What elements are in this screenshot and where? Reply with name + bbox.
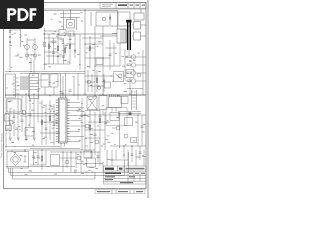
wire [136,64,146,66]
IC U6 pins [110,95,120,97]
wire [94,112,96,155]
wire [21,96,23,132]
wire [45,104,47,145]
relay K1 coil [69,22,73,26]
resistor R9 [89,125,91,130]
thermistor TH1 [109,14,111,26]
wire [10,29,21,31]
capacitor C8 [29,114,32,115]
wire mid bus [5,71,85,73]
wire [110,145,146,147]
wire [139,146,141,160]
IC U17 [105,82,111,88]
wire [30,164,46,166]
title block col line 4 [133,171,135,181]
wire [143,150,145,166]
wire [27,39,35,41]
wire [85,57,110,59]
wire [57,34,59,64]
PDF badge label letter D [18,8,29,21]
transformer T2 box [30,74,39,99]
wire [50,151,100,153]
transistor Q8 [22,111,26,115]
wire [33,96,35,140]
wire loop 3 [13,168,96,179]
connector CN4 [134,13,144,20]
wire [119,112,121,148]
wire [76,163,103,165]
wire [141,24,147,26]
degauss box [96,12,130,26]
IC U5 [99,96,107,110]
wire [132,24,134,26]
wire [82,37,103,39]
wire [90,152,92,158]
ground [9,138,12,140]
node junction cluster [129,112,132,115]
PDF badge [0,0,44,29]
wire mid bus 2 [20,72,85,74]
wire [85,110,100,112]
wire [27,54,35,56]
wire [136,72,146,74]
wire [127,88,143,90]
wire [13,109,15,136]
wire [62,152,64,172]
transistor Q1 ladder left rail [26,38,28,60]
wire [41,150,43,170]
IC U11 [51,155,60,166]
wire [105,47,117,49]
wire [53,87,55,95]
capacitor C20 [15,128,18,129]
title block row line 2 [104,175,147,177]
wire [33,150,35,165]
resistor R11 [131,138,137,143]
shield left wall [131,90,133,110]
fuse F1 [9,30,11,33]
wire [73,76,75,96]
wire [70,152,72,172]
connector CN2 [134,32,141,40]
wire [96,70,98,92]
transistor Q14 [77,156,81,160]
wire top bus 2 [44,10,118,12]
wire [44,33,117,35]
wire [30,58,32,70]
fuse F2 [9,36,11,43]
footer box divider [133,190,135,194]
PDF badge label letter P [7,8,16,21]
wire [74,34,76,58]
wire [132,35,134,37]
transistor Q4 [131,63,135,67]
pin number labels [78,108,80,111]
capacitor C11 [94,134,97,135]
revision table [100,3,146,9]
IC U1 left pins [56,100,59,142]
resistor R4 [69,44,71,49]
title block row line 3 [104,177,147,179]
wire [20,115,58,117]
capacitor C15 [97,156,100,157]
title block row4 text [105,179,113,180]
wire [69,34,71,64]
wire [89,110,91,150]
wire [106,150,108,166]
wire [95,65,120,67]
wire [37,150,39,165]
IC U2 [41,74,49,87]
IC U10 [125,118,133,126]
connector CN1 [134,22,141,30]
IC U13 [96,58,103,65]
wire [85,137,100,139]
connector P3 [5,114,10,121]
wire [40,121,58,123]
title block col line 5 [139,171,141,181]
transformer T2 windings [20,77,28,89]
wire [112,33,117,35]
wire [30,148,80,150]
connector P1 inner pins [13,77,15,95]
capacitor C6 [13,116,16,117]
IC U8 [25,128,34,137]
varistor symbol [20,34,22,38]
wire [81,98,83,150]
transistor Q15 [137,73,141,77]
wire [84,112,86,150]
transistor Q16 [25,54,28,57]
wire [119,43,121,66]
ground [33,138,36,140]
wire [86,47,95,49]
label specks extra [56,35,59,38]
wire [128,50,130,55]
transistor Q18 [87,80,91,84]
wire [113,43,115,66]
wire [63,11,65,30]
bridge rectifier BD1 diagonal [88,97,97,109]
wire [117,11,119,29]
resistor R7 [41,120,43,125]
photocoupler PC1 diode [115,74,122,80]
wire [44,87,46,95]
wire major bus [5,93,146,95]
revision table text [102,3,113,6]
wire [115,150,117,160]
resistor R1 [44,42,46,47]
footer box divider [111,190,113,194]
transistor Q19 [97,86,101,90]
wire [136,56,146,58]
wire [48,34,50,64]
wire [39,79,49,81]
wire [141,35,147,37]
wire [64,44,66,56]
wire [60,17,80,19]
wire [46,55,63,57]
wire [85,43,103,45]
wire [125,56,127,58]
ground [25,138,28,140]
right page edge shading [147,0,149,198]
wire [62,76,64,98]
wire [142,50,144,95]
wire [37,96,39,120]
resistor R13 [52,41,56,43]
wire [84,9,86,95]
shield right wall [136,90,138,110]
capacitor C1 [52,52,55,53]
wire [75,152,77,168]
diode D3 [103,80,105,82]
wire [99,150,101,166]
capacitor C10 [53,124,56,125]
wire [103,74,105,92]
sub-board outline [106,108,127,126]
transistor Q1 [25,45,30,50]
footer box divider [129,190,131,194]
wire [29,96,31,127]
wire [136,80,146,82]
IC U3 [50,74,58,87]
wire [66,152,68,168]
wire [6,166,75,168]
wire [49,100,51,140]
transistor Q3 base resistor [127,56,131,58]
wire [85,129,105,131]
photocoupler PC1 [114,72,124,82]
wire [89,36,91,68]
wire [110,159,128,161]
title block col line 2 [123,166,125,171]
shield rungs [132,92,137,107]
wire [140,9,142,13]
title block logo text [105,168,114,170]
wire major bus 2 [5,95,146,97]
wire [99,110,101,150]
title block page text [120,182,133,183]
wire [45,150,47,165]
component value labels [81,11,83,14]
wire [100,35,117,37]
wire [5,149,95,151]
footer box divider [115,190,117,194]
title block col line 1 [117,166,119,171]
wire [90,12,92,26]
IC U15 [84,151,92,158]
transformer T1 core bar 1 [127,22,129,50]
capacitor C2 [62,56,65,57]
bridge rectifier BD1 [87,97,97,110]
wire [117,12,119,26]
wire [60,73,62,98]
wire [44,63,70,65]
wire [44,37,62,39]
transistor Q2 ladder right rail [34,38,36,60]
wire [66,43,75,45]
transistor Q13 [65,160,69,164]
wire [97,152,99,162]
transistor Q3 [131,55,135,59]
transistor Q10 [95,140,99,144]
capacitor C19 [139,152,142,153]
wire [53,104,55,145]
capacitor C3 [109,54,112,55]
wire [102,26,104,95]
footer text [97,191,110,192]
wire [40,132,60,134]
connector P1 pin [16,78,19,94]
wire [17,96,19,140]
capacitor C9 [45,128,48,129]
transformer T1 primary winding [120,30,127,42]
wire [76,18,78,31]
IC U4 [126,70,134,78]
resistor R8 [49,116,51,121]
revision table divider [133,3,135,9]
transformer T1 winding box [117,29,126,43]
wire [109,40,111,70]
wire [11,150,13,152]
IC U1 inner wall [60,99,66,142]
revision table divider [139,3,141,9]
capacitor C12 [141,126,144,127]
wire [44,51,58,53]
resistor R5 [89,46,91,51]
wire [141,115,143,146]
wire [63,38,65,64]
wire [60,157,77,159]
title block col line 3 [127,171,129,184]
wire [123,146,125,159]
wire loop 1 [9,152,129,173]
capacitor C14 [37,156,40,157]
power supply block PS1 [7,152,29,169]
title block outline [104,166,147,184]
PDF badge label letter F [30,8,37,21]
wire [94,26,96,95]
wire [124,50,126,81]
wire [77,73,79,100]
wire [33,60,35,74]
page background [0,0,149,198]
border frame [4,3,147,189]
title block row3 text [105,176,115,177]
transformer T1 winding joint [126,20,131,23]
transistor Q12 [124,134,128,138]
svg-text:Free Service Manuals: Free Service Manuals [0,132,4,158]
wire [111,150,113,166]
connector CN3 [121,97,128,104]
wire top bus 1 [44,8,146,10]
resistor R14 [64,48,66,53]
wire [111,108,113,112]
wire pin leads [70,102,80,104]
wire [85,75,112,77]
wire [53,38,55,64]
wire [129,78,131,95]
revision table divider [127,3,129,9]
IC U12 [87,158,96,167]
wire [118,113,141,115]
wire [112,127,116,129]
resistor R12 [41,156,43,161]
relay K1 [67,20,75,29]
wire [118,111,141,113]
wire [135,150,137,166]
wire [79,34,81,70]
transistor Q5 [131,71,135,75]
resistor R6 [96,78,98,83]
capacitor C13 [32,156,35,157]
wire [9,109,11,140]
transformer T2 core line [28,75,30,97]
capacitor C18 [131,154,134,155]
title block model text [105,172,121,174]
capacitor C16 [59,30,66,36]
wire [88,121,110,123]
transformer T2 inner hatches [30,78,39,90]
wire [65,73,67,98]
IC U9 [110,113,119,121]
IC U16 [6,126,12,131]
op-amp U14 [10,120,15,125]
transistor Q9 [85,124,89,128]
wire [5,146,60,148]
wire [137,115,139,146]
wire [5,99,7,148]
resistor R3 [57,46,59,51]
transistor Q5 base resistor [127,72,131,74]
IC U1 right pins [67,100,70,142]
transistor Q17 [33,54,36,57]
wire [131,146,133,162]
wire [80,114,146,116]
posistor circle [102,17,106,21]
wire [41,100,43,145]
bridge BD2 circle [13,157,18,162]
wire [124,75,126,77]
IC U6 [109,97,122,108]
title block row line 4 [104,180,147,182]
wire [24,150,26,152]
transistor Q4 base resistor [127,64,131,66]
capacitor C5 [69,90,72,91]
transformer T1 core bar 2 [129,22,131,50]
resistor R2 [48,44,50,49]
wire [44,28,46,70]
transistor Q6 [131,79,135,83]
wire [64,143,66,147]
wire loop 2 [11,160,125,176]
wire [87,70,89,92]
wire [104,112,106,150]
wire [102,110,104,116]
wire [88,85,104,87]
IC U1 main [59,98,68,143]
revision table divider [115,3,117,9]
transistor Q6 base resistor [127,80,131,82]
wire [115,108,117,112]
capacitor C7 [21,120,24,121]
wire [60,13,80,15]
wire [102,162,104,172]
connector P2 [7,99,21,112]
wire [85,81,95,83]
connector P1 [6,74,16,98]
